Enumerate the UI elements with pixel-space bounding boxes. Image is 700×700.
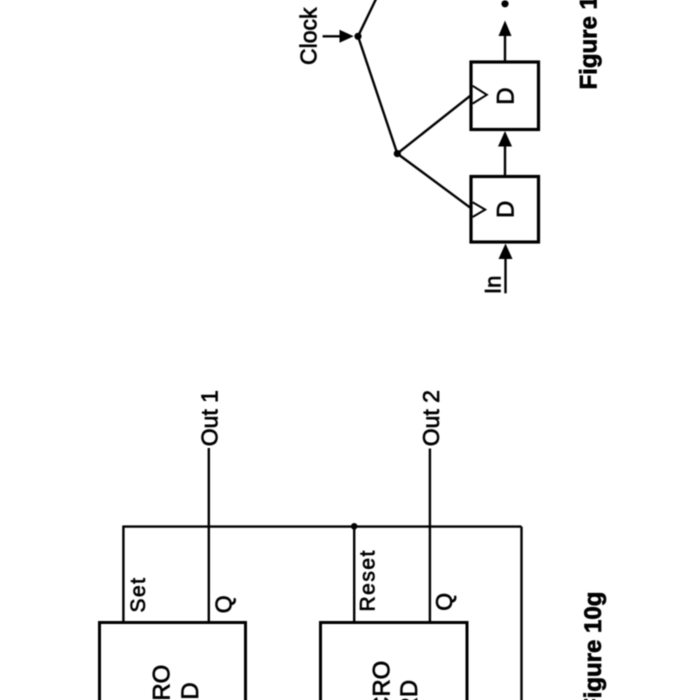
block A (left box, cut at bottom) [100,623,246,700]
svg-text:In: In [480,276,505,294]
node junction dot J2 (clock fanout) [394,150,401,157]
wire Out 1 [208,448,210,624]
In arrowhead [499,244,513,260]
node junction dot on bus (Reset tap) [351,523,358,530]
svg-text:Q: Q [211,595,237,613]
U1 output arrowhead [499,21,512,37]
wire Set (vertical) [122,526,124,624]
svg-text:RD: RD [396,680,423,700]
block B (right box, cut at bottom) [321,623,468,700]
wire Out 2 [429,449,431,624]
svg-text:Q: Q [431,593,457,611]
wire U2 output to U1 input [504,146,506,177]
svg-text:Reset: Reset [357,549,380,611]
node junction dot J1 (clock) [354,33,361,40]
svg-text:CRO: CRO [368,661,395,700]
svg-text:RD: RD [177,682,204,700]
svg-text:Out 2: Out 2 [418,390,444,446]
svg-text:Figure 10g: Figure 10g [580,592,607,700]
ellipsis dot (chain continues) [501,0,508,7]
wire feedback bus (horizontal) [123,525,521,527]
flip-flop U2 (lower D box) [471,177,539,243]
clock input arrowhead [340,30,354,43]
svg-text:D: D [493,201,520,218]
U2 clock triangle [473,202,486,217]
svg-text:CRO: CRO [148,665,175,700]
wire from J1 up-right (cut at top edge) [358,0,377,36]
wire In input [504,259,506,293]
wire from J1 down to J2 [358,36,397,153]
flip-flop U1 (upper D box) [471,62,539,130]
wire U1 output [504,36,506,62]
wire right feedback (vertical, cut at bottom) [520,527,522,700]
wire from J2 to flip-flop U2 clock pin [397,154,472,209]
svg-text:Out 1: Out 1 [196,390,222,446]
wire clock input line [323,35,341,37]
svg-text:Figure 10f: Figure 10f [575,0,602,90]
U2-to-U1 arrowhead [498,131,512,147]
wire Reset (vertical) [353,527,355,624]
svg-text:D: D [493,87,520,104]
svg-text:Set: Set [127,576,150,612]
U1 clock triangle [473,86,487,104]
wire from J2 to flip-flop U1 clock pin [397,95,471,154]
svg-text:Clock: Clock [296,7,322,65]
